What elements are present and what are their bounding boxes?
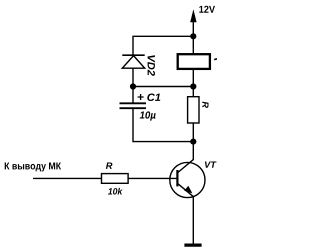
- wire relay to node: [192, 70, 194, 97]
- ground: [184, 244, 201, 247]
- wire emitter to ground: [192, 197, 194, 244]
- label K (clipped at edge): [214, 58, 217, 61]
- resistor R (base, 10k): [102, 174, 129, 184]
- wire resistor to base: [128, 177, 176, 179]
- label 10u: [140, 111, 156, 120]
- capacitor C1: [120, 103, 147, 108]
- resistor R (vertical): [188, 97, 199, 123]
- relay coil K1: [178, 54, 210, 69]
- label K vyvodu MK: [5, 163, 61, 172]
- node junction relay/R/cap: [190, 83, 196, 89]
- wire R to collector node: [192, 123, 194, 160]
- label VT: [205, 161, 217, 167]
- wire diode to cap: [132, 68, 134, 103]
- transistor VT: [170, 159, 205, 197]
- wire middle horizontal: [133, 86, 193, 88]
- wire 12V rail to relay: [192, 36, 194, 54]
- node junction diode/cap: [130, 83, 136, 89]
- label 10k: [108, 188, 123, 195]
- label VD2: [148, 55, 155, 76]
- power arrow 12V: [190, 9, 196, 36]
- node junction at 12V rail: [190, 33, 196, 39]
- wire top horizontal: [134, 35, 194, 37]
- label R (rotated): [202, 102, 208, 108]
- wire cap bottom L: [133, 108, 193, 141]
- label 12V: [199, 6, 215, 13]
- label + C1: [138, 94, 161, 102]
- node junction R/cap/collector: [190, 139, 196, 145]
- label R: [106, 163, 112, 169]
- wire MCU to resistor: [33, 177, 102, 179]
- wire diode branch upper: [132, 36, 134, 56]
- diode VD2: [122, 55, 144, 68]
